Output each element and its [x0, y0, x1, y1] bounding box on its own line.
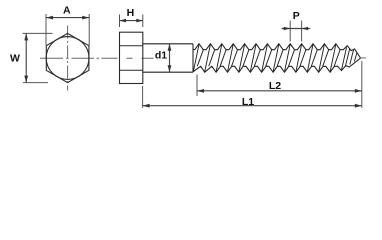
hex head end view: chamfer circle: [46, 37, 89, 80]
dimension L2 line with arrows: [197, 90, 362, 92]
thread: helix flank lines: [193, 44, 357, 72]
svg-text:P: P: [293, 10, 300, 22]
dimension L1 line with arrows: [143, 105, 362, 107]
hex head side view: facet lines: [120, 46, 143, 71]
dimension P extension lines: [290, 21, 301, 42]
horizontal centerline (end view through side view): [40, 57, 154, 59]
centerline dash at tip: [360, 57, 367, 59]
thread: bottom crest zigzag: [193, 58, 361, 72]
vertical centerline of hex head end view: [67, 26, 69, 91]
unthreaded shank: [143, 44, 193, 72]
dimension W extension lines: [23, 33, 53, 82]
svg-text:A: A: [63, 5, 71, 17]
svg-text:H: H: [127, 7, 135, 19]
dimension L1 extension line (under head): [142, 86, 144, 108]
extension line at screw tip: [361, 61, 363, 108]
svg-text:d1: d1: [155, 50, 167, 62]
svg-text:W: W: [10, 53, 20, 65]
dimension d1 line with arrows: [169, 44, 171, 72]
dimension P line with outside arrows: [282, 28, 311, 30]
thread: top crest zigzag: [193, 44, 361, 58]
dimension A line with arrows: [46, 17, 89, 19]
dimension H line with arrows: [120, 20, 143, 22]
hex head side view: head rectangle: [120, 32, 143, 83]
lag screw technical drawing: [0, 0, 382, 119]
dimension W line with arrows: [25, 33, 27, 82]
svg-text:L1: L1: [242, 96, 254, 108]
dimension A extension lines: [46, 14, 89, 45]
svg-text:L2: L2: [269, 80, 281, 92]
dimension H extension lines: [120, 15, 143, 28]
dimension L2 extension line (thread start): [196, 75, 198, 97]
hex head end view: hexagon outline: [46, 33, 89, 82]
